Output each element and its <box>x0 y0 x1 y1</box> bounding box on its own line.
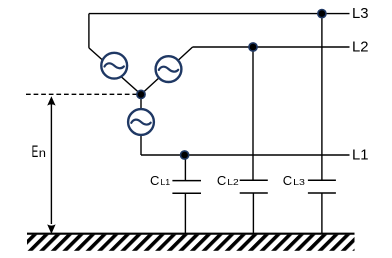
svg-text:E: E <box>32 142 39 161</box>
wire L1 horizontal <box>141 154 350 156</box>
source V1 (phase L3) <box>101 53 127 79</box>
wire left drop from L3 <box>88 14 90 48</box>
wire diagonal to source V1 <box>89 48 141 95</box>
svg-text:L1: L1 <box>352 146 369 163</box>
wire from L3 junction down to capacitor CL3 <box>321 14 323 181</box>
svg-text:L3: L3 <box>352 5 369 22</box>
junction dot on L3 <box>318 10 326 18</box>
capacitor CL3 <box>308 180 336 233</box>
junction dot on L1 <box>181 151 189 159</box>
svg-text:L2: L2 <box>352 38 369 55</box>
dashed neutral potential line <box>26 93 137 95</box>
neutral node N <box>137 90 145 98</box>
wire L2 horizontal <box>193 46 350 48</box>
svg-text:n: n <box>39 146 46 160</box>
earth ground plane <box>27 234 355 251</box>
measurement arrow En (double headed) <box>47 96 55 234</box>
wire L3 top horizontal <box>89 13 350 15</box>
source V3 (phase L1) <box>128 109 154 135</box>
source V2 (phase L2) <box>156 56 182 82</box>
capacitor CL2 <box>240 180 268 233</box>
wire from L1 junction down to capacitor CL1 <box>184 155 186 181</box>
junction dot on L2 <box>249 43 257 51</box>
wire from L2 junction down to capacitor CL2 <box>252 47 254 180</box>
wire neutral node through source V3 down <box>140 94 142 155</box>
wire neutral node to source V2 <box>141 47 193 94</box>
capacitor CL1 <box>172 181 201 233</box>
